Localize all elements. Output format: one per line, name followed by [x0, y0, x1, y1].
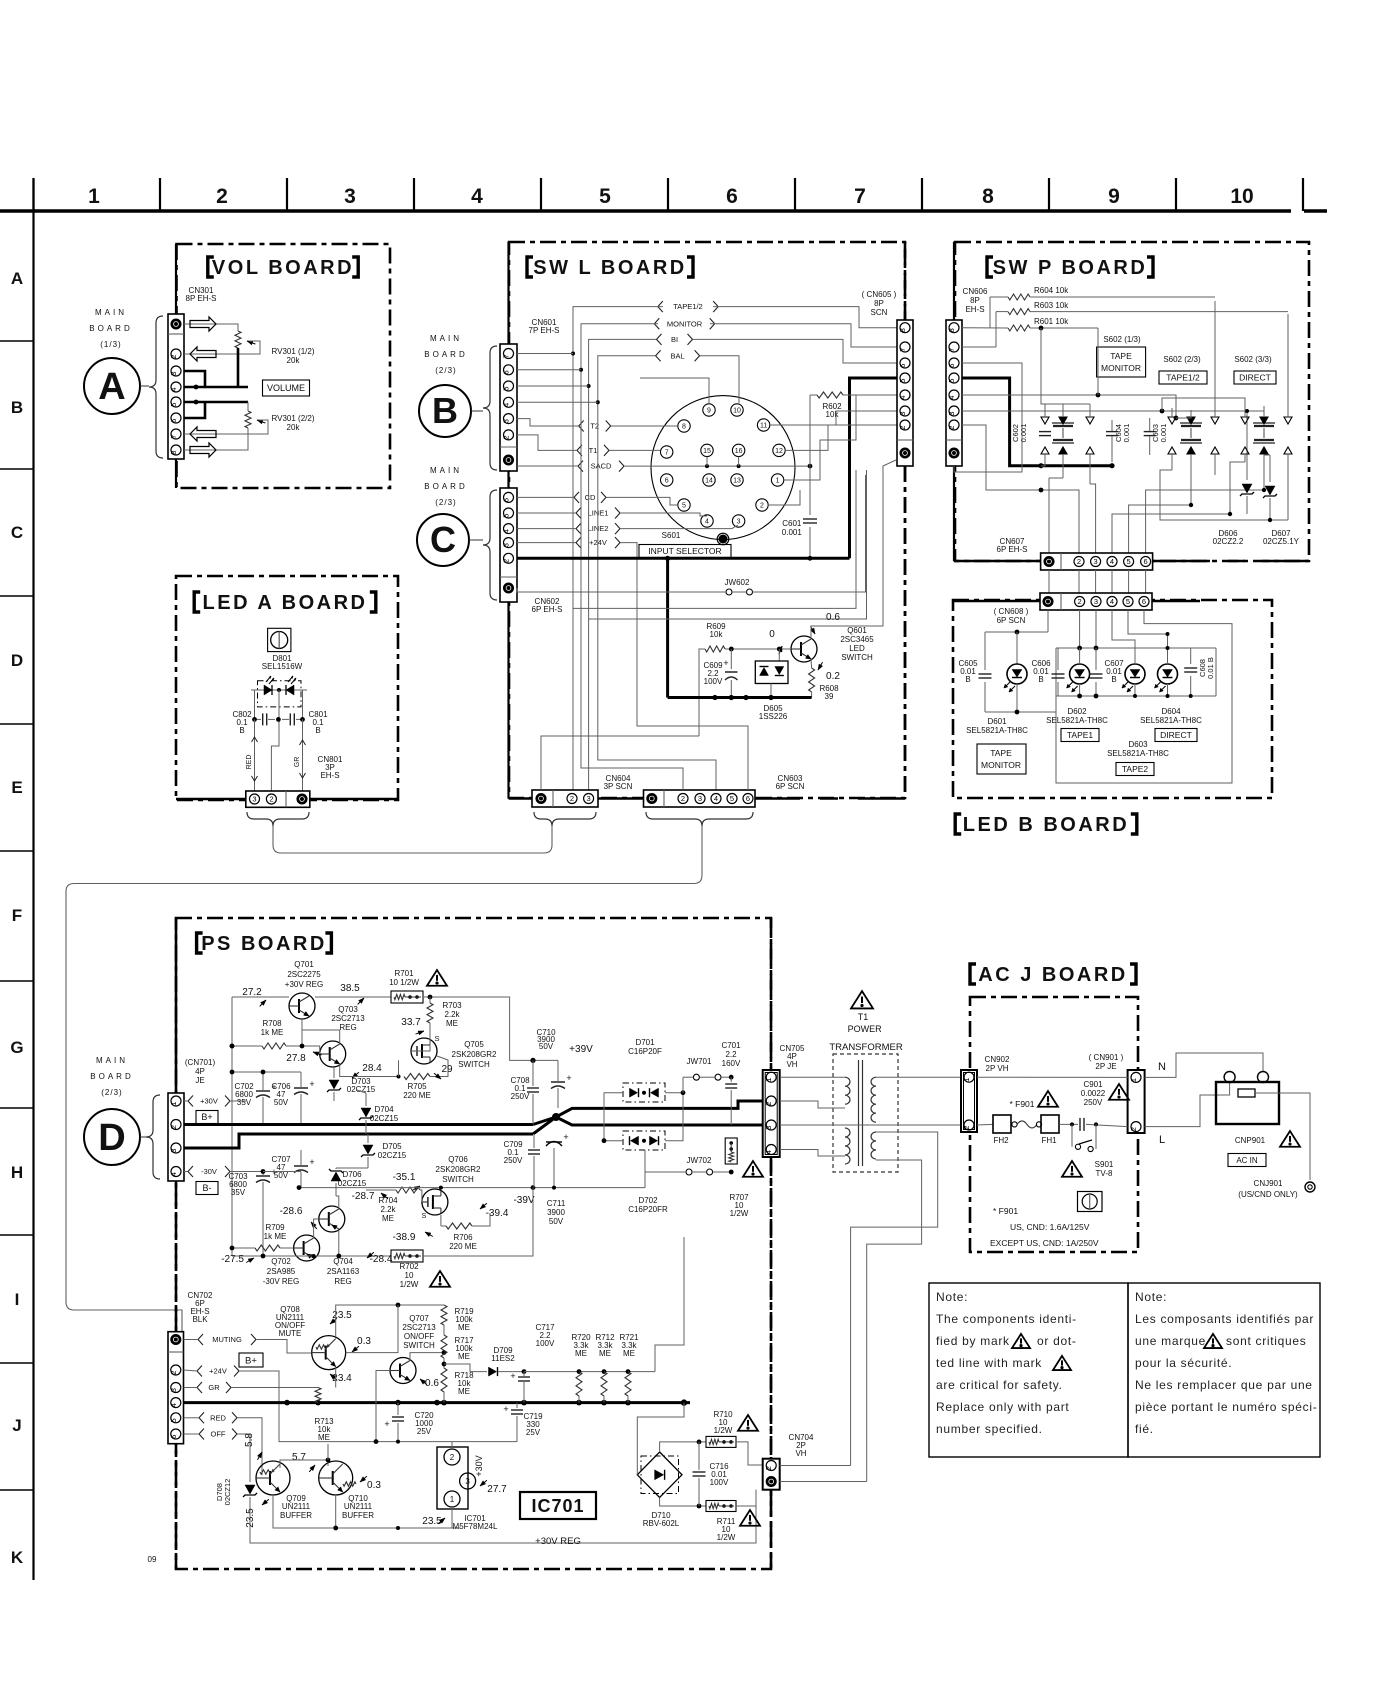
wire CN607 to CN608 links — [1048, 570, 1050, 593]
potentiometer RV301 (2/2) — [247, 402, 249, 411]
svg-text:5: 5 — [169, 403, 178, 407]
wire Q708 collector top — [336, 1305, 444, 1337]
svg-text:3: 3 — [502, 419, 511, 423]
svg-text:10: 10 — [405, 1271, 414, 1280]
svg-text:2SC3465: 2SC3465 — [840, 635, 874, 644]
svg-text:D704: D704 — [374, 1105, 394, 1114]
capacitor C608 0.01 B — [1184, 667, 1197, 669]
svg-text:RED: RED — [210, 1413, 226, 1422]
svg-text:50V: 50V — [549, 1217, 564, 1226]
svg-text:4: 4 — [502, 529, 511, 533]
svg-text:LED B BOARD: LED B BOARD — [963, 814, 1129, 836]
svg-text:3: 3 — [169, 372, 178, 376]
warning mark R711 — [740, 1510, 760, 1526]
wire D710 top to R710 row — [660, 1442, 706, 1452]
wire CN608 pin5 drop — [1128, 610, 1168, 648]
connector CN603 — [644, 790, 756, 807]
svg-text:(1/3): (1/3) — [100, 340, 121, 349]
wire Q709 collector net — [280, 1460, 328, 1468]
wire B- thick CN701 pin3 — [184, 1134, 533, 1148]
svg-text:2: 2 — [898, 426, 907, 430]
svg-text:(2/3): (2/3) — [435, 498, 456, 507]
warning mark R701 — [427, 970, 447, 986]
wire Q710 out — [353, 1452, 390, 1478]
svg-text:B-: B- — [203, 1183, 212, 1193]
svg-text:4: 4 — [169, 1403, 178, 1407]
svg-text:1: 1 — [776, 478, 780, 485]
svg-text:2: 2 — [502, 435, 511, 439]
svg-text:23.5: 23.5 — [245, 1508, 256, 1528]
S601 contact 3 — [732, 515, 744, 527]
svg-text:GR: GR — [208, 1383, 220, 1392]
connector CN606 — [946, 320, 962, 466]
svg-text:2.2: 2.2 — [725, 1050, 737, 1059]
svg-text:11ES2: 11ES2 — [491, 1354, 515, 1363]
wire JW701 feed — [731, 1076, 762, 1078]
svg-text:2: 2 — [269, 795, 273, 804]
svg-text:10: 10 — [733, 408, 741, 415]
wire R710 to CN704 pin2 — [736, 1442, 763, 1465]
svg-text:0.3: 0.3 — [357, 1336, 371, 1347]
svg-text:+: + — [510, 1371, 515, 1381]
svg-text:02CZ5.1Y: 02CZ5.1Y — [1263, 537, 1300, 546]
svg-text:C711: C711 — [547, 1199, 566, 1208]
wire CN902 pin2 row — [977, 1123, 993, 1126]
svg-text:RED: RED — [246, 755, 253, 770]
LED D602 — [1070, 664, 1090, 684]
svg-text:D602: D602 — [1067, 707, 1087, 716]
S601 contact 7 — [661, 446, 673, 458]
wire thick +24V bus CN606 pin5 — [962, 378, 1112, 466]
wire Q707 collector — [410, 1353, 444, 1360]
svg-text:fié.: fié. — [1135, 1422, 1154, 1436]
svg-text:1: 1 — [169, 1102, 178, 1106]
wire rail after R702 — [423, 1188, 533, 1256]
svg-text:S901: S901 — [1095, 1160, 1114, 1169]
svg-text:-30V REG: -30V REG — [263, 1277, 299, 1286]
connector CN701 — [168, 1093, 184, 1181]
svg-text:BOARD: BOARD — [90, 1072, 133, 1081]
wire R609 left down to bus — [699, 649, 705, 736]
wire BAL right to S601 contact 10 — [700, 356, 739, 403]
wire T1 to S601 contact 7 — [609, 449, 660, 451]
svg-text:10: 10 — [1230, 185, 1253, 208]
wire BAL left drop — [598, 356, 716, 790]
brace under CN604 — [534, 812, 596, 826]
svg-text:ME: ME — [458, 1323, 470, 1332]
svg-text:7: 7 — [854, 185, 866, 208]
wire Q703 emitter to D703 — [340, 1064, 399, 1077]
zener diode D703 02CZ15 — [333, 1067, 335, 1078]
wire D701 to JW701 node — [682, 1077, 684, 1093]
bridge rectifier D710 RBV-602L — [641, 1456, 679, 1494]
svg-text:MONITOR: MONITOR — [667, 319, 703, 328]
svg-text:-28.4: -28.4 — [370, 1254, 393, 1265]
svg-text:25V: 25V — [417, 1427, 432, 1436]
svg-text:N: N — [1158, 1061, 1166, 1073]
svg-text:sont critiques: sont critiques — [1226, 1334, 1307, 1348]
S601 contact 1 — [771, 474, 783, 486]
svg-text:0.001: 0.001 — [1122, 424, 1131, 443]
label TAPE1/2 box S602 — [1159, 371, 1207, 384]
wire MUTING to Q708 — [256, 1340, 311, 1354]
wire CN605 drop left fan 1 — [573, 470, 856, 608]
svg-text:UN2111: UN2111 — [344, 1502, 373, 1511]
svg-text:+30V: +30V — [474, 1455, 484, 1476]
wire Q706 source down to R706 — [440, 1215, 442, 1226]
svg-text:ME: ME — [446, 1019, 458, 1028]
wire CN603 long run to CN702 area — [66, 826, 702, 1332]
svg-text:CN902: CN902 — [985, 1055, 1010, 1064]
wire CN902 pin1 to fuse row — [977, 1076, 1128, 1078]
svg-text:BUFFER: BUFFER — [342, 1511, 374, 1520]
LED D604 — [1158, 664, 1178, 684]
brace for connector CN602 — [483, 490, 497, 600]
svg-text:2: 2 — [764, 1466, 773, 1470]
svg-text:CNJ901: CNJ901 — [1254, 1179, 1283, 1188]
svg-text:C16P20F: C16P20F — [628, 1047, 662, 1056]
svg-text:B+: B+ — [245, 1355, 257, 1366]
wire Q707 emitter — [410, 1381, 444, 1390]
wire Q601 collector — [811, 460, 896, 639]
svg-text:GR: GR — [294, 757, 301, 768]
wire CN601 pin5 riser to BI — [517, 385, 589, 387]
svg-text:-30V: -30V — [201, 1167, 217, 1176]
svg-text:15: 15 — [703, 448, 711, 455]
svg-text:8: 8 — [982, 185, 994, 208]
svg-text:une marque: une marque — [1135, 1334, 1206, 1348]
svg-text:+24V: +24V — [209, 1367, 227, 1376]
fuse holder FH1 — [1041, 1115, 1059, 1133]
svg-text:MAIN: MAIN — [96, 1056, 128, 1065]
svg-text:DIRECT: DIRECT — [1160, 730, 1192, 740]
wire T1 secondary top to CN902 — [876, 1076, 961, 1078]
svg-text:EH-S: EH-S — [320, 771, 339, 780]
node X crossing — [533, 1101, 762, 1125]
wire pin6 jog to pin5 — [184, 402, 205, 418]
svg-text:3: 3 — [947, 412, 956, 416]
svg-text:12: 12 — [775, 448, 783, 455]
wire BI right to CN605 pin6 — [693, 339, 898, 363]
connector CN604 — [532, 790, 598, 807]
svg-text:(CN701): (CN701) — [185, 1058, 216, 1067]
svg-text:0.2: 0.2 — [826, 671, 840, 682]
svg-text:6: 6 — [169, 419, 178, 423]
wire CD to S601 contact 5 — [606, 497, 677, 505]
svg-text:VOLUME: VOLUME — [267, 383, 305, 393]
svg-text:11: 11 — [760, 423, 767, 430]
wire Q708 out right — [346, 1305, 398, 1353]
wire LINE1 to S601 contact 4 — [620, 513, 707, 516]
svg-text:+: + — [384, 1419, 389, 1429]
wire -39V rail — [299, 1187, 645, 1189]
svg-text:Q701: Q701 — [294, 960, 314, 969]
wire CN601 pin2 to T1 label — [517, 435, 577, 451]
warning mark note1 — [1012, 1334, 1030, 1348]
wire CN801-CN604 link — [273, 826, 552, 853]
svg-text:SWITCH: SWITCH — [403, 1341, 435, 1350]
wire C605/D601 top bus — [985, 631, 1048, 633]
connector CN607 — [1041, 553, 1153, 570]
svg-text:Q707: Q707 — [409, 1314, 429, 1323]
wire CN606 pin1 down — [954, 466, 986, 472]
capacitor C802 0.1 B — [255, 718, 262, 720]
svg-text:Q705: Q705 — [464, 1040, 484, 1049]
svg-text:9: 9 — [707, 408, 711, 415]
wire PS right edge — [770, 918, 773, 1070]
svg-text:+30V: +30V — [200, 1097, 218, 1106]
wire R718 junction to D709 row — [444, 1364, 487, 1372]
rotary switch S601 outline — [651, 396, 795, 540]
wire R601 drop to sw1 — [1097, 328, 1099, 395]
wire T1 to CN704 links — [780, 1465, 851, 1467]
svg-text:RV301 (1/2): RV301 (1/2) — [272, 347, 315, 356]
svg-text:B: B — [315, 726, 320, 735]
wire thick Q601 emitter bus — [668, 696, 812, 699]
svg-text:2: 2 — [681, 794, 685, 803]
svg-text:TAPE: TAPE — [990, 748, 1012, 758]
brace for connector CN301 — [149, 316, 163, 458]
thick rail CN702 pin4 — [184, 1401, 691, 1404]
wire RV301(2/2) wiper to pin7 — [184, 420, 268, 434]
svg-text:T1: T1 — [858, 1012, 869, 1022]
wire +24V right branch down — [620, 543, 637, 690]
wire +24V run — [239, 1371, 517, 1442]
wire S601 contact 1 right — [784, 395, 856, 480]
connector CN705 — [763, 1070, 780, 1157]
svg-text:2: 2 — [169, 1125, 178, 1129]
svg-text:3: 3 — [169, 1149, 178, 1153]
svg-text:2.2k: 2.2k — [444, 1010, 460, 1019]
svg-text:4: 4 — [471, 185, 483, 208]
svg-text:1k ME: 1k ME — [264, 1232, 287, 1241]
svg-text:ME: ME — [575, 1349, 587, 1358]
switch S602 contact set 1 — [1052, 422, 1074, 424]
S601 contact 6 — [661, 474, 673, 486]
svg-text:MAIN: MAIN — [430, 466, 462, 475]
svg-text:6: 6 — [502, 370, 511, 374]
svg-text:C: C — [430, 519, 456, 560]
wire CN601 pin7 riser to TAPE1/2 — [517, 353, 573, 355]
connector CN902 — [961, 1070, 977, 1132]
svg-text:POWER: POWER — [848, 1024, 883, 1034]
wire CN608 pin1 drop — [1047, 610, 1049, 632]
svg-text:Note:: Note: — [936, 1290, 968, 1304]
label DIRECT box — [1155, 729, 1197, 742]
svg-text:5: 5 — [1126, 597, 1130, 606]
wire CN602 pin6 to CD label — [517, 496, 574, 498]
svg-text:A: A — [98, 366, 125, 408]
brace for connector CN601 — [483, 346, 497, 470]
svg-text:MAIN: MAIN — [430, 334, 462, 343]
wire LED A bottom edge — [176, 798, 246, 801]
svg-text:28.4: 28.4 — [362, 1063, 382, 1074]
label B+ box — [196, 1111, 218, 1124]
svg-text:R603 10k: R603 10k — [1034, 301, 1069, 310]
node D main board circle — [84, 1109, 140, 1165]
svg-text:IC701: IC701 — [531, 1496, 584, 1516]
switch S602 contact set 3 — [1253, 422, 1275, 424]
svg-text:5: 5 — [1127, 557, 1131, 566]
svg-text:29: 29 — [441, 1064, 453, 1075]
svg-text:MAIN: MAIN — [95, 308, 127, 317]
arrow out pin8 — [190, 443, 216, 457]
svg-text:-35.1: -35.1 — [393, 1172, 416, 1183]
svg-text:2P JE: 2P JE — [1095, 1062, 1116, 1071]
svg-text:number specified.: number specified. — [936, 1422, 1043, 1436]
svg-text:-39.4: -39.4 — [486, 1208, 509, 1219]
svg-text:Q703: Q703 — [338, 1005, 358, 1014]
svg-text:R706: R706 — [453, 1233, 473, 1242]
svg-text:C901: C901 — [1083, 1080, 1103, 1089]
svg-text:REG: REG — [339, 1023, 356, 1032]
wire CN606 pin4 — [962, 395, 1176, 418]
svg-text:3P SCN: 3P SCN — [604, 782, 633, 791]
wire rail after R701 — [423, 997, 558, 1060]
wire BI left drop — [589, 339, 656, 790]
svg-text:7: 7 — [665, 450, 669, 457]
svg-text:RBV-602L: RBV-602L — [643, 1519, 680, 1528]
svg-text:AC IN: AC IN — [1236, 1156, 1258, 1165]
svg-text:2: 2 — [570, 794, 574, 803]
wire IC701 pin3 right — [475, 1442, 517, 1481]
warning mark R707 — [743, 1161, 763, 1177]
wire S601 contact 2 right — [768, 490, 800, 505]
svg-text:3: 3 — [1094, 597, 1098, 606]
svg-text:(2/3): (2/3) — [435, 366, 456, 375]
svg-text:2SA1163: 2SA1163 — [327, 1267, 360, 1276]
svg-text:D: D — [11, 651, 23, 670]
T1 secondary winding upper — [871, 1077, 876, 1122]
svg-text:7: 7 — [502, 354, 511, 358]
svg-text:B: B — [239, 726, 244, 735]
svg-text:0.001: 0.001 — [1159, 424, 1168, 443]
svg-text:6P EH-S: 6P EH-S — [997, 545, 1028, 554]
wire +30V branch caps — [263, 1071, 301, 1073]
warning mark R702 — [430, 1271, 450, 1287]
svg-text:6: 6 — [726, 185, 738, 208]
svg-text:M5F78M24L: M5F78M24L — [453, 1522, 498, 1531]
svg-text:B: B — [432, 390, 458, 431]
svg-text:3: 3 — [344, 185, 356, 208]
svg-text:R709: R709 — [265, 1223, 285, 1232]
svg-text:T1: T1 — [589, 446, 598, 455]
svg-text:JE: JE — [195, 1076, 204, 1085]
svg-text:D: D — [98, 1117, 125, 1159]
svg-text:2.2k: 2.2k — [380, 1205, 396, 1214]
svg-text:1SS226: 1SS226 — [759, 712, 788, 721]
warning mark T1 — [851, 991, 873, 1008]
wire Q709/Q710 bottom rail — [273, 1495, 460, 1528]
warning mark F901 — [1038, 1091, 1058, 1107]
S601 common terminal — [719, 535, 728, 544]
svg-text:6: 6 — [746, 794, 750, 803]
svg-text:BI: BI — [671, 335, 678, 344]
svg-text:B: B — [1111, 675, 1116, 684]
svg-text:6P SCN: 6P SCN — [776, 782, 805, 791]
svg-text:FH2: FH2 — [993, 1136, 1009, 1145]
svg-text:5.8: 5.8 — [244, 1433, 255, 1447]
warning mark C901 — [1109, 1084, 1129, 1100]
svg-text:D705: D705 — [382, 1142, 402, 1151]
svg-text:Replace only with part: Replace only with part — [936, 1400, 1069, 1414]
svg-text:1/2W: 1/2W — [730, 1209, 749, 1218]
board SW L BOARD outline — [509, 242, 905, 798]
svg-text:MUTE: MUTE — [279, 1329, 302, 1338]
wire C801 down pin1 — [302, 719, 304, 791]
wire R602 node down — [809, 395, 811, 466]
wire TAPE1/2 left to vertical drop — [573, 307, 663, 790]
svg-text:MONITOR: MONITOR — [1101, 363, 1141, 373]
svg-text:D702: D702 — [638, 1196, 658, 1205]
svg-text:220 ME: 220 ME — [449, 1242, 477, 1251]
wire SACD row through selector — [624, 465, 810, 467]
S601 contact 4 — [701, 515, 713, 527]
wire x232 vertical rail — [231, 997, 233, 1256]
wire Q708 emitter to R713 — [335, 1368, 337, 1388]
svg-text:-28.6: -28.6 — [280, 1206, 303, 1217]
svg-text:D706: D706 — [342, 1170, 362, 1179]
svg-text:1/2W: 1/2W — [400, 1280, 419, 1289]
wire RED run — [237, 1418, 262, 1475]
svg-text:02CZ15: 02CZ15 — [378, 1151, 407, 1160]
wire CN601 pin4 riser to BAL — [517, 401, 598, 403]
svg-text:VOL BOARD: VOL BOARD — [212, 257, 354, 279]
svg-text:D604: D604 — [1161, 707, 1181, 716]
S601 contact 8 — [678, 420, 690, 432]
wire CN601-CN602 edge stubs — [507, 242, 509, 344]
svg-text:PS BOARD: PS BOARD — [201, 933, 327, 955]
wire RV301(1/2) bottom to pin4 node — [237, 348, 240, 387]
wire CN606 pin7 — [962, 346, 996, 348]
svg-text:2: 2 — [764, 1102, 773, 1106]
wire R711 to CN704 pin1 — [736, 1482, 763, 1506]
node C main board circle — [417, 514, 469, 566]
svg-text:250V: 250V — [504, 1156, 523, 1165]
svg-text:C: C — [11, 523, 23, 542]
S601 contact 14 — [703, 474, 715, 486]
svg-text:02CZ15: 02CZ15 — [370, 1114, 399, 1123]
warning mark note2 — [1053, 1356, 1071, 1370]
svg-text:BOARD: BOARD — [89, 324, 132, 333]
wire C605/D601 bottom bus — [985, 711, 1056, 713]
board LED B BOARD outline — [953, 600, 1272, 798]
svg-text:TAPE1/2: TAPE1/2 — [673, 302, 702, 311]
svg-text:7: 7 — [947, 348, 956, 352]
switch S602 contact set 2 — [1180, 422, 1202, 424]
S601 contact 9 — [703, 404, 715, 416]
svg-text:5: 5 — [502, 387, 511, 391]
svg-text:OFF: OFF — [211, 1430, 226, 1439]
svg-text:9: 9 — [1108, 185, 1120, 208]
svg-text:3: 3 — [764, 1126, 773, 1130]
svg-text:B: B — [1038, 675, 1043, 684]
svg-text:8: 8 — [682, 424, 686, 431]
svg-text:VH: VH — [786, 1060, 797, 1069]
wire CN301 pin1 to RV301(1/2) — [184, 324, 238, 331]
connector CN602 — [500, 488, 517, 602]
svg-text:0.6: 0.6 — [425, 1378, 439, 1389]
svg-text:2SK208GR2: 2SK208GR2 — [436, 1165, 481, 1174]
wire SW P bottom edge — [955, 560, 1041, 563]
svg-text:LED: LED — [849, 644, 865, 653]
svg-text:Les composants identifiés par: Les composants identifiés par — [1135, 1312, 1314, 1326]
svg-text:7P EH-S: 7P EH-S — [529, 326, 560, 335]
svg-text:-28.7: -28.7 — [352, 1191, 375, 1202]
svg-text:ME: ME — [599, 1349, 611, 1358]
svg-text:16: 16 — [735, 448, 743, 455]
wire CN602 pin4 to LINE2 — [517, 528, 576, 530]
